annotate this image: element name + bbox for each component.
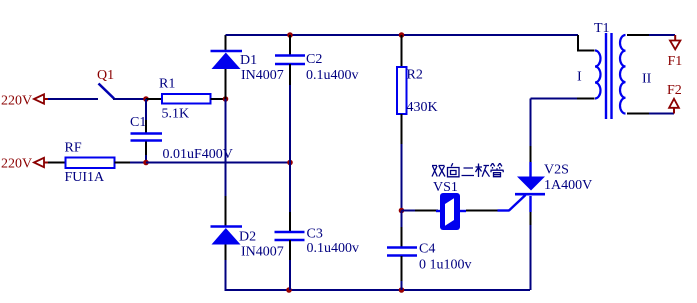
svg-text:C2: C2 [306, 52, 322, 67]
node [287, 32, 293, 38]
svg-text:C1: C1 [130, 115, 146, 130]
wire [146, 162, 290, 164]
node [143, 160, 149, 166]
winding II [620, 35, 626, 114]
node [286, 287, 292, 293]
node [399, 32, 405, 38]
svg-text:R1: R1 [159, 77, 175, 92]
capacitor C4 [387, 211, 472, 291]
fuse RF [48, 141, 130, 186]
label 双向二极管 [432, 163, 504, 177]
secondary lead bottom [627, 113, 649, 115]
svg-text:IN4007: IN4007 [241, 68, 284, 83]
transformer T1 [531, 21, 676, 119]
svg-text:220V: 220V [1, 157, 32, 172]
svg-text:FUI1A: FUI1A [65, 170, 106, 185]
capacitor C2 [275, 35, 359, 163]
port F1 [668, 35, 683, 69]
svg-text:1A400V: 1A400V [544, 178, 592, 193]
wire [48, 98, 98, 100]
port F2 [667, 83, 682, 114]
core [605, 33, 607, 119]
svg-text:D1: D1 [240, 53, 257, 68]
port 220V top [1, 94, 48, 109]
svg-text:T1: T1 [594, 21, 610, 36]
wire top bus [226, 34, 579, 36]
svg-text:V2S: V2S [544, 163, 569, 178]
svg-text:D2: D2 [239, 230, 256, 245]
svg-text:Q1: Q1 [97, 68, 114, 83]
svg-text:220V: 220V [1, 94, 32, 109]
svg-text:0.1u400v: 0.1u400v [306, 68, 359, 83]
svg-text:F2: F2 [667, 83, 682, 98]
svg-text:R2: R2 [407, 68, 423, 83]
svg-text:0.01uF400V: 0.01uF400V [163, 147, 233, 162]
resistor R2 [397, 35, 438, 211]
node [223, 96, 229, 102]
primary lead top [578, 35, 595, 51]
svg-text:0 1u100v: 0 1u100v [419, 258, 472, 273]
port 220V bottom [1, 157, 48, 172]
svg-text:RF: RF [65, 141, 82, 156]
triac V2S [498, 99, 593, 291]
wire [226, 260, 531, 290]
capacitor C3 [275, 163, 360, 291]
svg-text:VS1: VS1 [433, 180, 458, 195]
node [287, 160, 293, 166]
secondary lead top [627, 34, 649, 36]
node [399, 287, 405, 293]
svg-text:F1: F1 [668, 54, 683, 69]
diode D2 [211, 196, 284, 260]
node [399, 208, 405, 214]
wire [113, 98, 146, 100]
svg-text:IN4007: IN4007 [241, 245, 284, 260]
resistor R1 [146, 77, 226, 122]
diac VS1 [402, 180, 498, 230]
diode D1 [211, 35, 284, 99]
wire [225, 99, 227, 196]
wire [130, 162, 146, 164]
svg-text:C3: C3 [307, 227, 323, 242]
primary lead bottom [577, 98, 595, 100]
svg-text:0.1u400v: 0.1u400v [307, 241, 360, 256]
svg-text:430K: 430K [407, 100, 438, 115]
capacitor C1 [130, 99, 233, 163]
node [143, 96, 149, 102]
svg-text:I: I [577, 70, 582, 85]
switch Q1 [97, 68, 114, 99]
winding I [595, 51, 601, 99]
svg-text:5.1K: 5.1K [162, 107, 190, 122]
svg-text:C4: C4 [419, 242, 435, 257]
svg-text:II: II [642, 72, 652, 87]
